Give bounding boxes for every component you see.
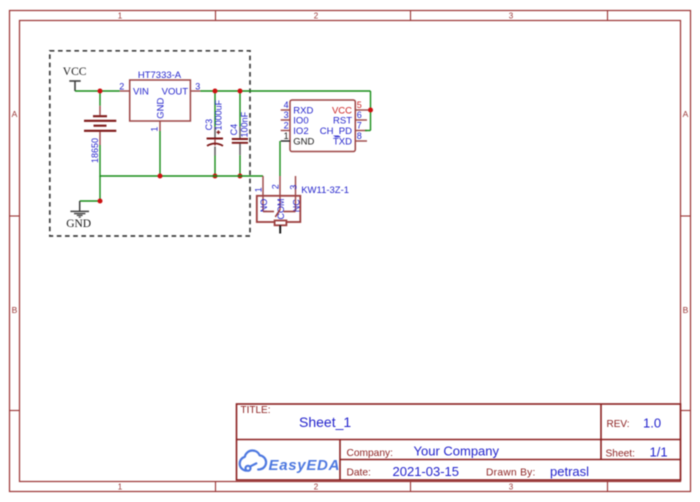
svg-text:NC: NC (291, 199, 301, 212)
svg-text:Sheet:: Sheet: (606, 448, 635, 459)
svg-text:3: 3 (509, 11, 514, 20)
svg-text:7: 7 (357, 120, 362, 130)
wire VCC to VIN (75, 90, 120, 92)
svg-text:Your Company: Your Company (414, 444, 500, 459)
svg-text:2: 2 (314, 11, 319, 20)
wire bus down to gnd flag (99, 176, 101, 201)
pin 2 IO2 (281, 130, 290, 132)
wire rail to VCC pin (370, 91, 372, 131)
switch S1 KW11-3Z-1 (257, 196, 301, 222)
wire VCC down to battery (99, 91, 101, 106)
pin 7 CH_PD (355, 130, 367, 132)
svg-text:Company:: Company: (347, 448, 393, 459)
pin 2 VIN (120, 90, 130, 92)
capacitor C3 1000uF (214, 91, 216, 127)
svg-text:1/1: 1/1 (650, 445, 668, 460)
wire VOUT rail (200, 90, 370, 92)
node junction C4 bottom (238, 174, 243, 179)
switch contacts (263, 211, 274, 213)
node junction C3 top (213, 89, 218, 94)
switch plunger (279, 225, 281, 233)
svg-text:GND: GND (66, 218, 91, 230)
svg-text:3: 3 (288, 185, 298, 190)
capacitor C4 100nF (239, 91, 241, 127)
battery 18650 (84, 106, 116, 145)
pin 8 TXD (355, 140, 367, 142)
svg-text:1: 1 (150, 127, 160, 132)
wire HT7333 gnd down (159, 131, 161, 176)
svg-text:TXD: TXD (333, 136, 352, 147)
pin 1 NO (262, 176, 264, 212)
svg-text:IO0: IO0 (293, 115, 308, 126)
svg-text:1: 1 (253, 187, 263, 192)
svg-text:B: B (683, 305, 689, 315)
svg-text:2021-03-15: 2021-03-15 (393, 464, 460, 479)
net flag VCC (69, 81, 80, 91)
svg-text:C4: C4 (229, 124, 239, 136)
svg-text:18650: 18650 (90, 138, 100, 163)
pin 2 COM (279, 176, 281, 210)
pin 4 RXD (281, 109, 290, 111)
wire ESP gnd down to switch (279, 141, 281, 176)
svg-text:1: 1 (284, 131, 289, 141)
svg-text:8: 8 (357, 131, 362, 141)
pin 1 GND (159, 121, 161, 131)
pin 3 NC (295, 176, 297, 212)
svg-text:TITLE:: TITLE: (241, 405, 271, 416)
frame ticks top (216, 11, 608, 21)
node junction VCC pin (368, 108, 373, 113)
pin 5 VCC (355, 109, 368, 111)
switch button (275, 221, 287, 226)
svg-text:NO: NO (259, 199, 269, 213)
svg-text:Drawn By:: Drawn By: (486, 468, 536, 479)
net flag GND (70, 201, 89, 217)
svg-text:3: 3 (195, 82, 200, 92)
node junction HT gnd (158, 174, 163, 179)
svg-text:1: 1 (118, 482, 123, 491)
svg-text:IO2: IO2 (293, 126, 308, 137)
wire to gnd symbol (80, 200, 100, 202)
selection dashed box (50, 51, 250, 236)
node junction at VCC (98, 89, 103, 94)
TXD overline (335, 136, 341, 138)
svg-text:6: 6 (357, 110, 362, 120)
svg-text:Sheet_1: Sheet_1 (299, 414, 351, 430)
svg-text:B: B (12, 305, 18, 315)
node junction gnd (98, 199, 103, 204)
frame ticks right (681, 216, 691, 411)
svg-text:GND: GND (156, 98, 167, 119)
frame ticks bottom (216, 482, 608, 492)
svg-text:KW11-3Z-1: KW11-3Z-1 (301, 185, 349, 196)
switch lever (275, 210, 280, 217)
svg-text:3: 3 (509, 482, 514, 491)
svg-text:1.0: 1.0 (643, 416, 661, 431)
title block (237, 404, 681, 480)
frame ticks left (10, 216, 20, 411)
pin 6 RST (355, 119, 367, 121)
svg-text:VIN: VIN (133, 87, 149, 98)
svg-text:100nF: 100nF (240, 111, 250, 137)
svg-text:A: A (683, 109, 689, 119)
regulator U1 HT7333-A (130, 80, 191, 121)
svg-text:petrasl: petrasl (550, 464, 589, 479)
svg-text:2: 2 (119, 81, 124, 91)
wire to CH_PD (365, 130, 371, 132)
svg-text:VCC: VCC (63, 66, 87, 78)
svg-text:COM: COM (276, 199, 286, 220)
module U2 ESP-01 (290, 100, 355, 152)
svg-text:CH_PD: CH_PD (320, 126, 352, 137)
svg-text:VOUT: VOUT (162, 87, 189, 98)
svg-text:Date:: Date: (347, 468, 371, 479)
svg-text:2: 2 (284, 120, 289, 130)
svg-text:GND: GND (293, 136, 314, 147)
svg-text:REV:: REV: (607, 419, 630, 430)
svg-text:1: 1 (118, 11, 123, 20)
wire battery to gnd bus (99, 145, 101, 177)
svg-text:3: 3 (284, 110, 289, 120)
svg-text:4: 4 (284, 100, 289, 110)
svg-text:2: 2 (314, 482, 319, 491)
svg-text:HT7333-A: HT7333-A (138, 70, 182, 81)
gnd bus wire (100, 175, 263, 177)
EasyEDA logo cloud (240, 451, 266, 471)
pin 3 VOUT (190, 90, 200, 92)
node junction C3 bottom (213, 174, 218, 179)
svg-text:A: A (12, 109, 18, 119)
node junction C4 top (238, 89, 243, 94)
svg-text:C3: C3 (204, 119, 214, 131)
pin 1 GND (281, 140, 290, 142)
svg-text:5: 5 (357, 100, 362, 110)
pin 3 IO0 (281, 119, 290, 121)
svg-text:RST: RST (333, 115, 352, 126)
svg-text:2: 2 (270, 184, 280, 189)
svg-text:EasyEDA: EasyEDA (269, 457, 341, 474)
svg-text:1000uF: 1000uF (214, 99, 224, 130)
